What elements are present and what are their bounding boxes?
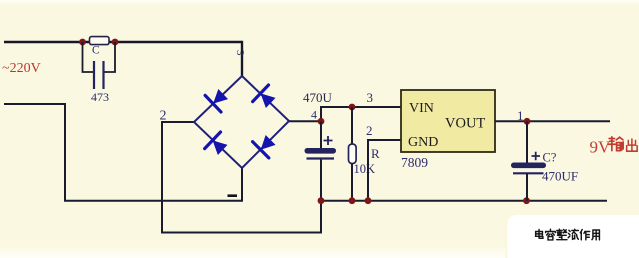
- caption 作: [580, 230, 589, 240]
- capacitor C? plus sign: [532, 152, 541, 160]
- wire: lower-left AC input: [4, 103, 65, 105]
- diode D4 bottom-right: [253, 132, 279, 158]
- minus polarity mark: [228, 194, 238, 197]
- junction dot bus/C?: [523, 197, 530, 204]
- resistor R top lead: [351, 107, 353, 144]
- wire: GND down leg: [367, 139, 369, 201]
- label 输 (output char 1): [609, 137, 624, 151]
- wire: node 2 down leg: [161, 121, 163, 233]
- caption 电: [536, 230, 543, 239]
- wire: capacitor C right stub: [104, 42, 116, 72]
- caption 整: [557, 229, 567, 239]
- wire: capacitor C left stub: [83, 42, 95, 72]
- svg-text:470UF: 470UF: [542, 169, 578, 184]
- regulator U1 7809 body: [401, 90, 495, 152]
- caption 流: [568, 229, 578, 239]
- svg-text:VIN: VIN: [409, 101, 434, 116]
- resistor R bottom lead: [351, 164, 353, 202]
- wire: top rail drop to bridge top vertex: [241, 41, 243, 76]
- bridge rectifier outline: [194, 76, 289, 168]
- node dot (resistor top junction): [349, 104, 356, 111]
- svg-text:~220V: ~220V: [2, 61, 41, 76]
- svg-text:VOUT: VOUT: [445, 116, 485, 132]
- junction dot bus/cap470U: [318, 197, 325, 204]
- junction dot VOUT/C?: [524, 118, 531, 125]
- capacitor C? top plate: [511, 163, 546, 169]
- wire: bridge right vertex to cap node: [289, 120, 321, 122]
- wire: lower AC bus to bridge bottom: [64, 200, 242, 202]
- svg-text:470U: 470U: [303, 90, 333, 105]
- capacitor C plates: [94, 61, 104, 89]
- capacitor 470U bottom plate: [307, 157, 335, 159]
- wire: 470U cap bottom lead down to loop: [320, 159, 322, 234]
- wire: bridge bottom vertex drop: [241, 168, 243, 202]
- svg-text:C?: C?: [543, 151, 557, 165]
- svg-text:473: 473: [91, 90, 109, 104]
- node dot 4 (cap junction): [318, 118, 325, 125]
- wire: top AC rail: [4, 41, 242, 43]
- label 出 (output char 2): [627, 139, 637, 151]
- svg-text:3: 3: [367, 90, 374, 105]
- svg-text:GND: GND: [408, 135, 438, 150]
- caption background box: [508, 215, 639, 258]
- svg-text:1: 1: [517, 108, 524, 123]
- svg-text:2: 2: [366, 123, 373, 138]
- wire: bottom return loop: [161, 232, 321, 234]
- wire: up corner and VIN feed: [321, 107, 401, 122]
- wire: left down leg: [64, 103, 66, 201]
- svg-text:C: C: [92, 45, 100, 57]
- diode D2 top-right: [253, 85, 279, 111]
- svg-text:2: 2: [160, 109, 167, 124]
- svg-text:4: 4: [311, 108, 317, 122]
- resistor R body: [349, 144, 357, 164]
- capacitor 470U plus sign: [324, 136, 333, 145]
- svg-text:R: R: [371, 146, 380, 161]
- capacitor C? bottom lead: [526, 173, 528, 200]
- svg-text:3: 3: [234, 50, 246, 56]
- wire: bottom DC bus: [321, 200, 607, 202]
- svg-text:10K: 10K: [354, 162, 376, 176]
- wire: VOUT output wire: [495, 120, 610, 122]
- capacitor 470U top plate: [305, 148, 337, 154]
- diode D3 bottom-left: [205, 132, 231, 158]
- resistor box on top rail (part of C network): [90, 37, 110, 45]
- capacitor C? bottom plate: [513, 172, 544, 174]
- wire: GND pin wire: [368, 139, 401, 141]
- junction dot bus/resistor: [349, 197, 356, 204]
- caption 用: [592, 230, 600, 240]
- svg-text:7809: 7809: [401, 155, 428, 170]
- node junction dot on top rail (left of C): [79, 39, 86, 46]
- wire: node 2 wire from left bridge vertex: [162, 121, 194, 123]
- capacitor 470U top lead: [320, 121, 322, 148]
- node junction dot on top rail (right of C): [112, 39, 119, 46]
- svg-text:9V: 9V: [590, 138, 612, 157]
- caption 容: [546, 229, 556, 240]
- junction dot bus/GND: [365, 197, 372, 204]
- diode D1 top-left: [205, 86, 231, 112]
- capacitor C? top lead: [526, 121, 528, 162]
